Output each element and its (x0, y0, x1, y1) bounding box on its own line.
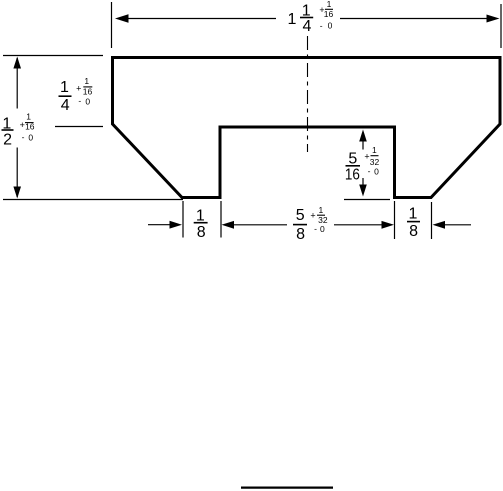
bottom extension line x=221 (220, 201, 222, 238)
svg-text:-: - (78, 96, 81, 106)
left dim: middle extension line (55, 126, 103, 128)
svg-text:0: 0 (28, 133, 33, 143)
svg-text:8: 8 (197, 224, 206, 241)
svg-text:4: 4 (302, 18, 311, 35)
svg-text:1: 1 (372, 145, 377, 155)
svg-text:1: 1 (26, 112, 31, 122)
svg-text:1: 1 (319, 205, 324, 215)
dimension text 5/16 (345, 150, 360, 183)
dimension text 1/8 (right) (407, 206, 420, 241)
bottom page rule (241, 487, 333, 489)
svg-text:0: 0 (328, 21, 333, 31)
bottom extension line x=183 (182, 201, 184, 238)
dimension text 1/2 (2, 115, 14, 148)
top dimension arrow right (487, 15, 500, 23)
svg-text:+: + (76, 84, 81, 94)
svg-text:8: 8 (409, 223, 418, 240)
svg-text:-: - (320, 20, 323, 30)
centerline (307, 36, 309, 152)
svg-text:16: 16 (345, 167, 360, 184)
left outer arrow (1/8 left) (148, 224, 172, 226)
svg-text:-: - (368, 166, 371, 176)
top dimension extension line right (500, 4, 502, 48)
svg-text:1: 1 (84, 76, 89, 86)
svg-text:1: 1 (60, 79, 69, 96)
dimension text 1/8 (left) (194, 208, 208, 242)
tolerance +1/16 -0 (left 1/4) (76, 76, 92, 106)
bottom extension line x=394.5 (394, 201, 396, 239)
svg-text:16: 16 (83, 86, 93, 96)
svg-text:5: 5 (296, 207, 305, 224)
svg-text:16: 16 (25, 122, 35, 132)
svg-text:5: 5 (348, 150, 357, 167)
svg-text:+: + (310, 211, 315, 221)
dimension text 5/8 (293, 207, 307, 243)
slot depth arrow down (362, 178, 364, 190)
tolerance +1/16 -0 (top) (319, 0, 333, 31)
svg-text:0: 0 (374, 167, 379, 177)
dimension text 1/4 (left label) (59, 79, 72, 114)
svg-text:4: 4 (61, 97, 70, 114)
part outline (113, 58, 501, 198)
5/8 dimension line right arrow (334, 224, 384, 226)
top dimension extension line left (111, 2, 113, 48)
svg-text:0: 0 (320, 224, 325, 234)
tolerance +1/32 -0 (5/8) (310, 205, 328, 234)
left dimension line lower segment (16, 148, 18, 198)
svg-text:8: 8 (296, 226, 305, 243)
right outer arrow (1/8 right) (433, 221, 446, 229)
left dim: top extension line (3, 55, 103, 57)
svg-text:2: 2 (3, 132, 12, 149)
left dim: bottom extension line (3, 199, 183, 201)
left dimension arrow down (13, 187, 21, 199)
left dimension line upper segment (16, 58, 18, 109)
slot depth bottom extension line (344, 199, 390, 201)
top dimension line right segment (340, 18, 492, 20)
bottom extension line x=431.5 (431, 202, 433, 239)
tolerance +1/32 -0 (5/16) (364, 145, 379, 176)
svg-text:32: 32 (370, 157, 380, 167)
5/8 dimension line left arrow (222, 221, 235, 229)
svg-text:1: 1 (409, 206, 418, 223)
left dimension arrow up (13, 57, 21, 69)
svg-text:-: - (22, 132, 25, 142)
top dimension arrow left (115, 14, 129, 23)
tolerance +1/16 -0 (left 1/2) (20, 112, 35, 143)
dimension text 1 1/4 (288, 2, 314, 35)
svg-text:-: - (314, 224, 317, 234)
slot depth arrow up (362, 132, 364, 150)
svg-text:0: 0 (85, 96, 90, 106)
svg-text:1: 1 (288, 11, 297, 28)
top dimension line left segment (124, 18, 276, 20)
svg-text:16: 16 (324, 9, 334, 19)
